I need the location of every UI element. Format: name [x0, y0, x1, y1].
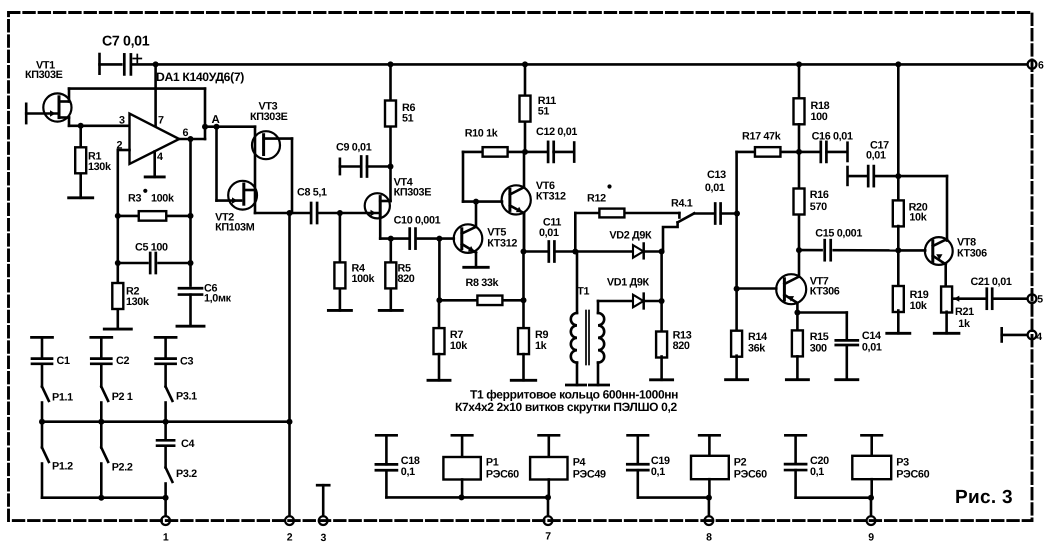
- svg-text:C5 100: C5 100: [135, 242, 168, 254]
- svg-text:DA1 К140УД6(7): DA1 К140УД6(7): [156, 70, 244, 84]
- svg-text:КП303Е: КП303Е: [394, 187, 432, 199]
- svg-text:10k: 10k: [910, 300, 928, 312]
- svg-text:4: 4: [1036, 331, 1042, 343]
- svg-text:R12: R12: [587, 193, 606, 205]
- svg-text:C1: C1: [57, 355, 70, 367]
- svg-text:130k: 130k: [88, 161, 112, 173]
- svg-text:C13: C13: [707, 169, 726, 181]
- svg-text:C7 0,01: C7 0,01: [102, 34, 150, 50]
- svg-text:0,1: 0,1: [401, 466, 415, 478]
- svg-text:2: 2: [287, 532, 293, 544]
- svg-text:10k: 10k: [450, 340, 468, 352]
- svg-text:КТ312: КТ312: [487, 238, 517, 250]
- svg-text:130k: 130k: [126, 296, 150, 308]
- svg-text:РЭС60: РЭС60: [896, 469, 929, 481]
- svg-text:C12 0,01: C12 0,01: [536, 126, 577, 138]
- svg-text:P2: P2: [734, 457, 747, 469]
- svg-text:РЭС60: РЭС60: [486, 469, 519, 481]
- svg-text:P1.1: P1.1: [52, 392, 73, 404]
- svg-text:51: 51: [402, 113, 414, 125]
- svg-text:C10 0,001: C10 0,001: [394, 215, 441, 227]
- svg-text:820: 820: [398, 273, 415, 285]
- svg-text:4: 4: [157, 151, 163, 163]
- svg-text:R14: R14: [748, 331, 767, 343]
- svg-text:C8 5,1: C8 5,1: [297, 187, 327, 199]
- svg-text:8: 8: [706, 532, 712, 544]
- svg-text:100k: 100k: [151, 193, 175, 205]
- svg-text:P2.2: P2.2: [112, 462, 133, 474]
- svg-text:P3: P3: [896, 457, 909, 469]
- svg-text:R8 33k: R8 33k: [466, 277, 500, 289]
- svg-text:300: 300: [810, 343, 827, 355]
- svg-text:3: 3: [320, 532, 326, 544]
- svg-text:P3.2: P3.2: [176, 468, 197, 480]
- svg-text:0,01: 0,01: [862, 342, 882, 354]
- svg-text:0,01: 0,01: [866, 150, 886, 162]
- svg-text:6: 6: [183, 127, 189, 139]
- svg-text:0,01: 0,01: [539, 227, 559, 239]
- svg-text:0,01: 0,01: [705, 182, 725, 194]
- svg-text:КП303Е: КП303Е: [25, 69, 63, 81]
- svg-text:1,0мк: 1,0мк: [204, 293, 232, 305]
- svg-text:6: 6: [1038, 60, 1044, 72]
- svg-text:51: 51: [538, 106, 550, 118]
- svg-text:КП303Е: КП303Е: [250, 111, 288, 123]
- svg-text:VD2 Д9К: VD2 Д9К: [609, 230, 652, 242]
- svg-text:10k: 10k: [909, 212, 927, 224]
- svg-text:Т1: Т1: [577, 286, 589, 298]
- svg-text:R21: R21: [955, 306, 974, 318]
- svg-text:3: 3: [119, 115, 125, 127]
- svg-text:C3: C3: [180, 356, 193, 368]
- svg-text:P2 1: P2 1: [112, 391, 133, 403]
- svg-text:36k: 36k: [748, 343, 766, 355]
- svg-text:C9 0,01: C9 0,01: [336, 142, 372, 154]
- svg-text:R17 47k: R17 47k: [742, 131, 782, 143]
- svg-text:1k: 1k: [535, 340, 548, 352]
- svg-text:A: A: [212, 114, 220, 126]
- svg-text:P1.2: P1.2: [52, 461, 73, 473]
- svg-text:R4.1: R4.1: [671, 198, 693, 210]
- svg-text:R15: R15: [810, 331, 829, 343]
- svg-text:РЭС49: РЭС49: [573, 469, 606, 481]
- svg-text:C21 0,01: C21 0,01: [971, 276, 1012, 288]
- svg-text:РЭС60: РЭС60: [734, 469, 767, 481]
- svg-text:0,1: 0,1: [651, 466, 665, 478]
- svg-text:2: 2: [117, 140, 123, 152]
- svg-text:КТ306: КТ306: [957, 248, 987, 260]
- svg-text:9: 9: [868, 532, 874, 544]
- svg-text:К7х4х2 2х10 витков скрутки ПЭЛ: К7х4х2 2х10 витков скрутки ПЭЛШО 0,2: [455, 400, 677, 414]
- svg-text:C4: C4: [181, 438, 194, 450]
- svg-text:КТ312: КТ312: [536, 191, 566, 203]
- svg-text:P4: P4: [573, 457, 586, 469]
- svg-text:КТ306: КТ306: [810, 286, 840, 298]
- svg-text:100: 100: [811, 111, 828, 123]
- svg-text:P1: P1: [486, 457, 499, 469]
- svg-text:570: 570: [810, 201, 827, 213]
- svg-text:P3.1: P3.1: [176, 391, 197, 403]
- svg-text:VD1 Д9К: VD1 Д9К: [607, 277, 650, 289]
- svg-text:100k: 100k: [352, 273, 376, 285]
- svg-text:0,1: 0,1: [810, 466, 824, 478]
- svg-text:7: 7: [158, 115, 164, 127]
- svg-text:Рис. 3: Рис. 3: [955, 487, 1013, 508]
- svg-text:C15 0,001: C15 0,001: [815, 228, 862, 240]
- svg-text:R16: R16: [810, 189, 829, 201]
- svg-text:R3: R3: [128, 193, 141, 205]
- svg-text:1: 1: [163, 532, 169, 544]
- svg-text:C14: C14: [862, 330, 881, 342]
- svg-text:C16 0,01: C16 0,01: [812, 131, 853, 143]
- svg-text:5: 5: [1037, 294, 1043, 306]
- svg-text:1k: 1k: [958, 318, 971, 330]
- svg-text:7: 7: [545, 531, 551, 543]
- svg-text:R10 1k: R10 1k: [465, 128, 499, 140]
- svg-text:КП103М: КП103М: [215, 222, 255, 234]
- svg-text:C2: C2: [116, 355, 129, 367]
- svg-text:820: 820: [673, 340, 690, 352]
